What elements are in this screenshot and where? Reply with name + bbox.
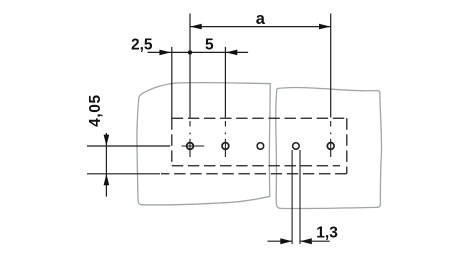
hole 3 xyxy=(257,143,264,150)
arrowhead 4,05 top (pointing down) xyxy=(104,135,110,146)
svg-text:4,05: 4,05 xyxy=(87,94,104,127)
PCB board piece right (sketchy outline) xyxy=(276,88,382,209)
arrowhead 2,5 (pointing right) xyxy=(159,50,171,56)
extension line: connector front edge (4,05 bottom reference, solid part) xyxy=(87,173,160,175)
arrowhead 4,05 bottom (pointing up) xyxy=(104,174,110,185)
dimension line 1,3 left tail xyxy=(268,240,293,242)
centerline hole 2 (dash-dot lower part) xyxy=(224,121,226,157)
svg-text:5: 5 xyxy=(205,36,214,53)
centerline hole 5 (dash-dot lower part) xyxy=(330,121,332,157)
dashed connector outline: bottom edge xyxy=(172,165,340,167)
dashed connector outline: right edge xyxy=(346,118,348,174)
extension / centerline hole 1 (solid upper part) xyxy=(189,14,191,118)
arrowhead 5 (pointing left) xyxy=(226,50,238,56)
arrowhead a right (pointing right) xyxy=(319,24,331,30)
arrowhead 1,3 right (pointing left) xyxy=(300,238,312,244)
crosshair horizontal hole 1 xyxy=(182,145,205,147)
arrowhead a left (pointing left) xyxy=(190,24,202,30)
hole 1 xyxy=(187,143,194,150)
dashed connector front edge line xyxy=(161,173,347,175)
dimension line 2,5 / 5 xyxy=(148,51,249,53)
dimension line 1,3 right tail xyxy=(300,240,330,242)
hole 2 xyxy=(222,143,229,150)
projection line hole 4 left side xyxy=(291,150,293,244)
extension line for 2,5 (connector left edge) xyxy=(171,47,173,118)
centerline hole 1 (dash-dot lower part) xyxy=(189,121,191,157)
svg-text:a: a xyxy=(256,10,266,28)
centerline hole 2 (solid upper part) xyxy=(224,47,226,118)
arrowhead 1,3 left (pointing right) xyxy=(280,238,292,244)
projection line hole 4 right side xyxy=(299,150,301,244)
dashed connector outline: left edge xyxy=(171,118,173,166)
svg-text:2,5: 2,5 xyxy=(131,36,153,53)
hole 5 xyxy=(327,143,334,150)
dot junction at hole 1 centerline xyxy=(188,50,192,54)
extension line: hole axis (4,05 top reference) xyxy=(87,145,170,147)
extension / centerline hole 5 (solid upper part) xyxy=(330,14,332,118)
dashed connector outline: top edge xyxy=(172,117,347,119)
dimension line 4,05 (vertical) xyxy=(105,133,107,197)
PCB board piece left (sketchy outline) xyxy=(137,83,270,205)
dimension line a xyxy=(190,26,331,28)
svg-text:1,3: 1,3 xyxy=(316,225,338,242)
hole 4 xyxy=(293,143,300,150)
